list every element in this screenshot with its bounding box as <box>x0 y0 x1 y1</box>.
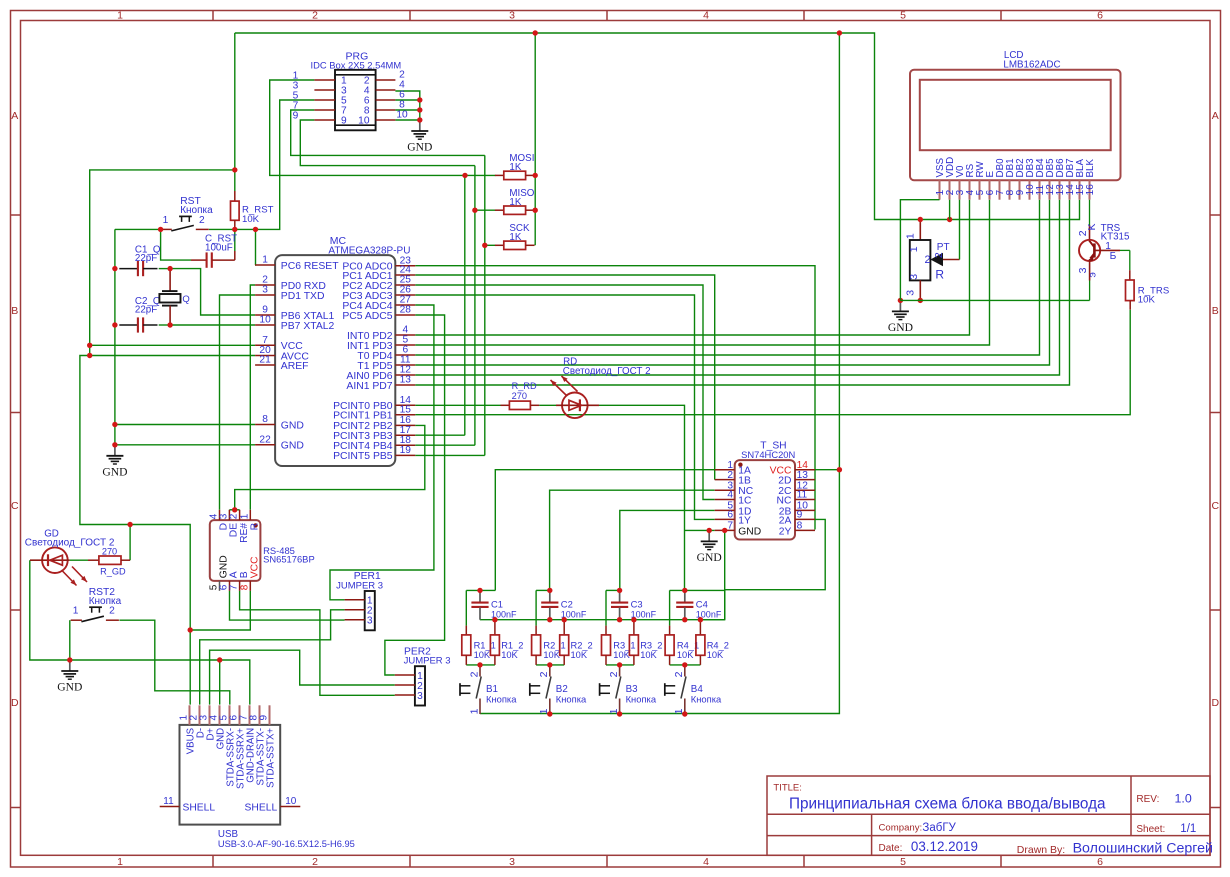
junction <box>217 657 222 662</box>
junction <box>722 528 727 533</box>
svg-text:10K: 10K <box>543 650 560 660</box>
svg-text:1K: 1K <box>509 232 521 243</box>
svg-text:ATMEGA328P-PU: ATMEGA328P-PU <box>328 245 410 256</box>
junction <box>87 343 92 348</box>
svg-text:Кнопка: Кнопка <box>89 596 122 607</box>
wire <box>210 650 395 704</box>
wire <box>415 285 714 500</box>
ground GND MC <box>102 445 127 479</box>
junction <box>417 107 422 112</box>
resistor R2_2 10K <box>560 620 593 665</box>
resistor R_GD <box>88 546 130 576</box>
junction <box>232 507 237 512</box>
wire <box>30 560 250 704</box>
wire <box>670 589 725 591</box>
wire <box>291 110 485 155</box>
wire <box>670 664 701 666</box>
resistor MISO 1K <box>495 188 535 214</box>
svg-text:15: 15 <box>400 404 412 415</box>
svg-text:Date:: Date: <box>879 843 903 854</box>
svg-text:6: 6 <box>727 510 733 521</box>
junction <box>631 617 636 622</box>
resistor R3_2 10K <box>629 620 662 665</box>
wire <box>685 529 715 531</box>
wire <box>229 509 239 511</box>
wire <box>395 99 419 101</box>
junction <box>837 467 842 472</box>
wire <box>606 589 620 591</box>
svg-text:PD1 TXD: PD1 TXD <box>281 291 325 302</box>
svg-text:VCC: VCC <box>250 556 261 578</box>
junction <box>617 617 622 622</box>
svg-text:R3_1: R3_1 <box>613 640 635 650</box>
wire <box>535 590 537 625</box>
junction <box>477 588 482 593</box>
wire <box>385 315 445 675</box>
wire <box>219 660 221 705</box>
wire <box>415 166 475 446</box>
svg-text:10K: 10K <box>474 650 491 660</box>
svg-text:GND: GND <box>888 321 913 334</box>
connector PER1 JUMPER 3 <box>336 571 383 630</box>
junction <box>417 117 422 122</box>
svg-text:1K: 1K <box>509 162 521 173</box>
wire <box>395 91 419 120</box>
svg-text:ЗабГУ: ЗабГУ <box>922 822 956 834</box>
wire <box>536 589 550 591</box>
svg-text:Company:: Company: <box>879 822 923 833</box>
svg-text:10K: 10K <box>677 650 694 660</box>
wire <box>254 229 256 265</box>
svg-text:2: 2 <box>229 513 240 519</box>
IC T_SH SN74HC20N <box>715 441 815 540</box>
junction <box>682 711 687 716</box>
connector USB <box>160 705 355 849</box>
LCD LMB162ADC <box>910 50 1121 200</box>
svg-text:Кнопка: Кнопка <box>691 693 722 704</box>
svg-text:BLK: BLK <box>1085 159 1096 178</box>
svg-text:6: 6 <box>1097 10 1103 22</box>
svg-text:3: 3 <box>509 10 515 22</box>
wire <box>724 590 726 619</box>
wire <box>270 80 465 175</box>
junction <box>112 422 117 427</box>
junction <box>417 97 422 102</box>
junction <box>947 217 952 222</box>
junction <box>482 243 487 248</box>
wire <box>465 174 495 176</box>
svg-text:2: 2 <box>199 215 205 226</box>
svg-text:B: B <box>11 305 18 317</box>
svg-text:SN65176BP: SN65176BP <box>263 553 315 564</box>
svg-text:2: 2 <box>312 856 318 868</box>
junction <box>112 322 117 327</box>
junction <box>67 657 72 662</box>
wire <box>235 425 425 509</box>
svg-text:03.12.2019: 03.12.2019 <box>911 839 978 854</box>
svg-text:21: 21 <box>259 355 271 366</box>
svg-text:3: 3 <box>417 691 423 702</box>
wire <box>240 591 395 696</box>
wire <box>485 244 496 246</box>
svg-text:R_RD: R_RD <box>512 381 537 391</box>
svg-text:9: 9 <box>259 715 270 721</box>
junction <box>898 298 903 303</box>
svg-text:22pF: 22pF <box>135 305 157 316</box>
pushbutton B2 <box>530 665 587 715</box>
wire <box>220 295 256 510</box>
svg-text:USB-3.0-AF-90-16.5X12.5-H6.95: USB-3.0-AF-90-16.5X12.5-H6.95 <box>218 839 355 849</box>
junction <box>682 588 687 593</box>
wire <box>606 664 634 666</box>
svg-text:1: 1 <box>117 856 123 868</box>
svg-text:1: 1 <box>904 233 916 239</box>
wire <box>119 620 229 704</box>
wire <box>200 610 345 705</box>
svg-text:C: C <box>11 500 19 512</box>
svg-text:PCINT5 PB5: PCINT5 PB5 <box>333 451 393 462</box>
svg-text:Кнопка: Кнопка <box>180 205 213 216</box>
wire <box>395 109 419 111</box>
wire <box>190 591 250 630</box>
wire <box>466 589 495 591</box>
svg-text:PB7 XTAL2: PB7 XTAL2 <box>281 321 335 332</box>
junction <box>167 322 172 327</box>
capacitor C3 100nF <box>611 590 657 619</box>
svg-text:AREF: AREF <box>281 361 309 372</box>
ground GND RST2 <box>57 660 82 694</box>
capacitor C1_Q <box>119 244 161 276</box>
wire <box>80 356 255 525</box>
svg-text:B: B <box>1212 305 1219 317</box>
svg-text:AIN1 PD7: AIN1 PD7 <box>346 381 392 392</box>
svg-text:SHELL: SHELL <box>183 802 216 813</box>
wire <box>534 33 536 245</box>
svg-text:IDC Box 2X5 2.54MM: IDC Box 2X5 2.54MM <box>311 60 402 71</box>
wire <box>480 33 840 714</box>
svg-text:D: D <box>11 697 19 709</box>
pushbutton B3 <box>600 665 657 715</box>
wire <box>234 229 236 251</box>
wire <box>620 510 715 590</box>
resistor SCK 1K <box>495 223 535 249</box>
wire <box>170 269 255 315</box>
svg-text:3: 3 <box>904 290 916 296</box>
svg-text:PC5 ADC5: PC5 ADC5 <box>342 311 392 322</box>
wire <box>170 324 255 326</box>
svg-text:R3_2: R3_2 <box>640 640 662 650</box>
wire <box>90 170 235 356</box>
junction <box>918 217 923 222</box>
junction <box>477 662 482 667</box>
svg-text:K: K <box>1086 223 1098 230</box>
svg-text:JUMPER 3: JUMPER 3 <box>336 580 383 591</box>
wire <box>495 470 714 591</box>
svg-text:Drawn By:: Drawn By: <box>1017 844 1065 856</box>
wire <box>115 444 255 446</box>
junction <box>547 617 552 622</box>
ground GND PRG <box>407 120 432 154</box>
svg-text:13: 13 <box>400 375 412 386</box>
wire <box>475 209 496 211</box>
capacitor C1 100nF <box>471 590 517 619</box>
wire <box>900 299 1089 301</box>
wire <box>949 200 951 220</box>
resistor R2_1 10K <box>532 626 566 665</box>
junction <box>232 167 237 172</box>
svg-text:Q: Q <box>182 294 189 305</box>
svg-text:2A: 2A <box>779 515 792 526</box>
svg-text:2: 2 <box>933 252 945 258</box>
svg-text:RE#: RE# <box>239 523 250 543</box>
svg-text:10K: 10K <box>640 650 657 660</box>
svg-text:1: 1 <box>73 606 79 617</box>
wire <box>415 200 989 345</box>
svg-text:R1_1: R1_1 <box>474 640 496 650</box>
ground GND T_SH <box>697 530 722 564</box>
LED GD <box>30 547 87 585</box>
junction <box>682 617 687 622</box>
wire <box>959 200 961 260</box>
svg-text:2: 2 <box>109 606 115 617</box>
svg-text:11: 11 <box>163 796 174 807</box>
junction <box>492 617 497 622</box>
svg-text:10K: 10K <box>613 650 630 660</box>
svg-text:GND: GND <box>57 681 82 694</box>
svg-text:5: 5 <box>900 856 906 868</box>
svg-text:C: C <box>1212 500 1220 512</box>
junction <box>188 627 193 632</box>
svg-text:9: 9 <box>293 111 299 122</box>
wire <box>415 295 714 519</box>
pushbutton B4 <box>665 665 722 715</box>
capacitor C2_Q <box>119 296 161 333</box>
IC RS-485 SN65176BP <box>209 510 315 591</box>
svg-text:C3: C3 <box>631 599 643 610</box>
svg-text:Волошинский Сергей: Волошинский Сергей <box>1073 841 1213 857</box>
svg-text:22pF: 22pF <box>135 253 157 264</box>
crystal Q <box>159 269 189 325</box>
pushbutton RST2 <box>71 587 122 622</box>
svg-text:R2_1: R2_1 <box>543 640 565 650</box>
wire <box>130 525 190 705</box>
LED RD <box>551 376 600 418</box>
junction <box>682 662 687 667</box>
svg-text:4: 4 <box>727 490 733 501</box>
svg-text:270: 270 <box>512 391 527 401</box>
svg-text:3: 3 <box>262 285 268 296</box>
svg-text:10: 10 <box>396 110 408 121</box>
svg-text:2: 2 <box>468 671 480 677</box>
junction <box>232 227 237 232</box>
svg-text:1: 1 <box>163 215 169 226</box>
svg-text:GND: GND <box>281 420 304 431</box>
wire <box>159 268 170 270</box>
svg-text:19: 19 <box>400 445 412 456</box>
svg-text:6: 6 <box>1097 856 1103 868</box>
svg-text:10K: 10K <box>242 214 260 225</box>
svg-text:э: э <box>1086 272 1098 277</box>
capacitor C2 100nF <box>541 590 587 619</box>
capacitor C_RST <box>191 233 237 267</box>
svg-text:SN74HC20N: SN74HC20N <box>741 449 795 460</box>
svg-text:TITLE:: TITLE: <box>773 783 802 794</box>
svg-text:R4_2: R4_2 <box>707 640 729 650</box>
capacitor C4 100nF <box>676 590 722 619</box>
wire <box>235 33 1080 220</box>
svg-text:8: 8 <box>239 584 250 590</box>
svg-text:NC: NC <box>777 496 792 507</box>
junction <box>87 353 92 358</box>
svg-text:Принципиальная схема блока вво: Принципиальная схема блока ввода/вывода <box>789 796 1106 813</box>
svg-text:2: 2 <box>727 470 733 481</box>
svg-text:2: 2 <box>673 671 685 677</box>
svg-text:10: 10 <box>285 796 297 807</box>
wire <box>415 200 1049 365</box>
svg-text:9: 9 <box>797 510 803 521</box>
wire <box>539 404 556 406</box>
ground GND PT <box>888 300 913 334</box>
junction <box>253 227 258 232</box>
svg-text:GND: GND <box>407 141 432 154</box>
svg-text:13: 13 <box>797 470 809 481</box>
wire <box>69 620 71 660</box>
junction <box>617 662 622 667</box>
wire <box>480 619 725 621</box>
wire <box>330 305 434 600</box>
junction <box>698 617 703 622</box>
connector PRG IDC Box 2X5 <box>293 50 408 130</box>
junction <box>472 208 477 213</box>
junction <box>112 442 117 447</box>
svg-text:REV:: REV: <box>1136 794 1159 805</box>
svg-text:270: 270 <box>102 546 117 556</box>
svg-text:R: R <box>935 267 944 281</box>
svg-text:2: 2 <box>608 671 620 677</box>
junction <box>547 711 552 716</box>
wire <box>466 664 495 666</box>
svg-text:3: 3 <box>509 856 515 868</box>
resistor MOSI 1K <box>495 153 535 179</box>
svg-text:10K: 10K <box>501 650 518 660</box>
svg-text:1/1: 1/1 <box>1180 823 1196 835</box>
junction <box>127 522 132 527</box>
svg-text:5: 5 <box>900 10 906 22</box>
wire <box>209 100 314 229</box>
wire <box>300 120 475 166</box>
svg-text:D: D <box>1212 697 1220 709</box>
svg-text:1: 1 <box>262 255 268 266</box>
junction <box>158 227 163 232</box>
svg-text:GND: GND <box>281 441 304 452</box>
svg-text:1: 1 <box>908 246 920 252</box>
svg-text:GND: GND <box>738 526 761 537</box>
svg-text:R_GD: R_GD <box>100 566 126 576</box>
pushbutton RST <box>161 196 214 231</box>
junction <box>167 266 172 271</box>
wire <box>815 469 839 471</box>
wire <box>250 285 255 510</box>
pushbutton B1 <box>460 665 517 715</box>
svg-text:PCINT1 PB1: PCINT1 PB1 <box>333 411 393 422</box>
svg-text:STDA-SSTX+: STDA-SSTX+ <box>265 728 276 788</box>
svg-text:11: 11 <box>797 490 808 501</box>
junction <box>617 711 622 716</box>
svg-text:100uF: 100uF <box>205 243 233 254</box>
resistor R4_2 10K <box>696 620 729 665</box>
svg-text:1.0: 1.0 <box>1175 791 1192 805</box>
potentiometer PT <box>904 220 959 301</box>
wire <box>415 310 1130 415</box>
svg-text:10K: 10K <box>1138 295 1156 306</box>
svg-text:10K: 10K <box>707 650 724 660</box>
svg-text:10: 10 <box>259 315 271 326</box>
svg-text:C2: C2 <box>561 599 573 610</box>
svg-text:2: 2 <box>538 671 550 677</box>
svg-text:4: 4 <box>703 856 709 868</box>
svg-text:8: 8 <box>797 521 803 532</box>
wire <box>415 155 485 455</box>
svg-text:R1_2: R1_2 <box>501 640 523 650</box>
svg-text:Кнопка: Кнопка <box>486 693 517 704</box>
resistor R3_1 10K <box>602 626 636 665</box>
svg-text:2: 2 <box>925 254 931 266</box>
wire <box>161 229 191 260</box>
svg-text:2D: 2D <box>778 476 791 487</box>
wire <box>415 200 1039 355</box>
svg-text:A: A <box>1212 110 1219 122</box>
wire <box>415 275 714 480</box>
svg-text:4: 4 <box>703 10 709 22</box>
resistor R_RST <box>231 191 274 229</box>
wire <box>415 404 500 406</box>
wire <box>230 591 345 620</box>
wire <box>114 229 116 444</box>
resistor R1_2 10K <box>490 620 523 665</box>
junction <box>547 662 552 667</box>
wire <box>465 590 467 625</box>
wire <box>415 200 969 335</box>
resistor R1_1 10K <box>462 626 496 665</box>
svg-text:Кнопка: Кнопка <box>556 693 587 704</box>
wire <box>700 530 724 619</box>
svg-text:10K: 10K <box>571 650 588 660</box>
junction <box>462 173 467 178</box>
svg-text:1: 1 <box>239 513 250 519</box>
junction <box>918 298 923 303</box>
wire <box>599 405 685 590</box>
svg-text:1K: 1K <box>509 197 521 208</box>
svg-text:LMB162ADC: LMB162ADC <box>1003 60 1060 71</box>
wire <box>395 119 419 121</box>
junction <box>707 528 712 533</box>
svg-text:PC6 RESET: PC6 RESET <box>281 261 339 272</box>
svg-text:Б: Б <box>1110 251 1117 262</box>
wire <box>605 590 607 625</box>
wire <box>415 175 465 435</box>
svg-text:8: 8 <box>262 414 268 425</box>
svg-text:Светодиод_ГОСТ 2: Светодиод_ГОСТ 2 <box>563 366 651 377</box>
wire <box>900 200 939 301</box>
svg-text:C4: C4 <box>696 599 708 610</box>
svg-text:R: R <box>250 523 261 530</box>
wire <box>115 228 161 230</box>
resistor R_TRS <box>1126 250 1170 309</box>
svg-text:A: A <box>11 110 18 122</box>
svg-text:Sheet:: Sheet: <box>1136 824 1165 835</box>
title block <box>767 776 1213 857</box>
svg-text:22: 22 <box>259 434 271 445</box>
